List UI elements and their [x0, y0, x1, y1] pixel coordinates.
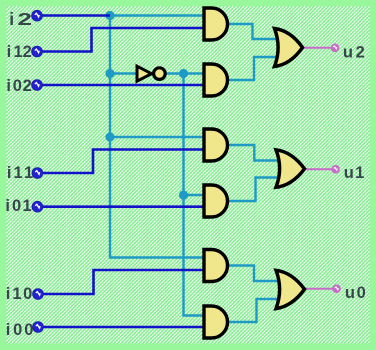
input terminal i00 [33, 322, 44, 333]
wire AND5 output to OR3 A input [228, 266, 280, 282]
input terminal i10 [33, 289, 44, 300]
input terminal i2 [32, 10, 43, 21]
svg-text:i: i [9, 9, 14, 29]
wire i2 terminal to junction [42, 14, 110, 17]
output terminal u1 [331, 165, 340, 174]
OR gate U8 [275, 29, 303, 67]
wire i2 vertical bus to AND5 A input [110, 16, 206, 258]
junction at AND4 branch [179, 190, 188, 199]
wire i00 to AND6 B input [42, 326, 206, 329]
AND gate U4 [204, 185, 228, 217]
svg-text:i10: i10 [6, 285, 32, 303]
junction at NOT output [179, 69, 188, 78]
OR gate U10 [276, 270, 305, 308]
wire OR3 output to u0 terminal [306, 288, 333, 290]
wire i2 branch to AND3 A input [110, 136, 206, 138]
svg-text:2: 2 [17, 9, 32, 29]
svg-text:i12: i12 [7, 43, 32, 61]
svg-text:i00: i00 [6, 321, 34, 339]
AND gate U5 [204, 250, 228, 282]
wire i01 to AND4 B input [42, 205, 206, 208]
input terminal i01 [32, 201, 43, 212]
wire i11 to AND3 B input [42, 150, 206, 174]
input terminal i11 [32, 168, 43, 179]
svg-text:i01: i01 [5, 197, 31, 215]
wire OR2 output to u1 terminal [305, 168, 332, 170]
wire AND1 output to OR1 A input [228, 24, 279, 39]
wire i12 to AND1 B input [42, 28, 206, 52]
AND gate U2 [204, 64, 228, 96]
junction at AND3 branch [105, 132, 114, 141]
input terminal i12 [32, 46, 43, 57]
junction at i2 row and vertical bus [105, 11, 114, 20]
AND gate U3 [204, 129, 228, 161]
wire NOT output to AND2 A input [164, 72, 206, 74]
wire i10 to AND5 B input [42, 270, 206, 294]
AND gate U1 [204, 8, 228, 40]
output terminal u2 [331, 44, 340, 53]
wire AND3 output to OR2 A input [228, 145, 280, 161]
wire AND6 output to OR3 B input [228, 299, 280, 322]
wire i2 to AND1 A input [110, 14, 206, 16]
NOT gate U7 bubble [154, 68, 166, 80]
wire i02 to AND2 B input [42, 84, 206, 87]
wire OR1 output to u2 terminal [303, 47, 331, 49]
wire NOT-output branch to AND4 A input [184, 194, 207, 196]
wire AND2 output to OR1 B input [228, 57, 279, 80]
junction at NOT input branch [105, 69, 114, 78]
NOT gate U7 triangle [137, 66, 152, 81]
svg-text:i02: i02 [6, 77, 31, 95]
wire NOT-output vertical bus to AND6 A input [184, 74, 207, 316]
svg-text:i11: i11 [7, 164, 33, 182]
wire i2 branch to NOT input [110, 72, 137, 74]
wire AND4 output to OR2 B input [228, 178, 280, 202]
input terminal i02 [32, 80, 43, 91]
OR gate U9 [276, 150, 305, 188]
output terminal u0 [332, 284, 341, 293]
AND gate U6 [204, 306, 228, 338]
